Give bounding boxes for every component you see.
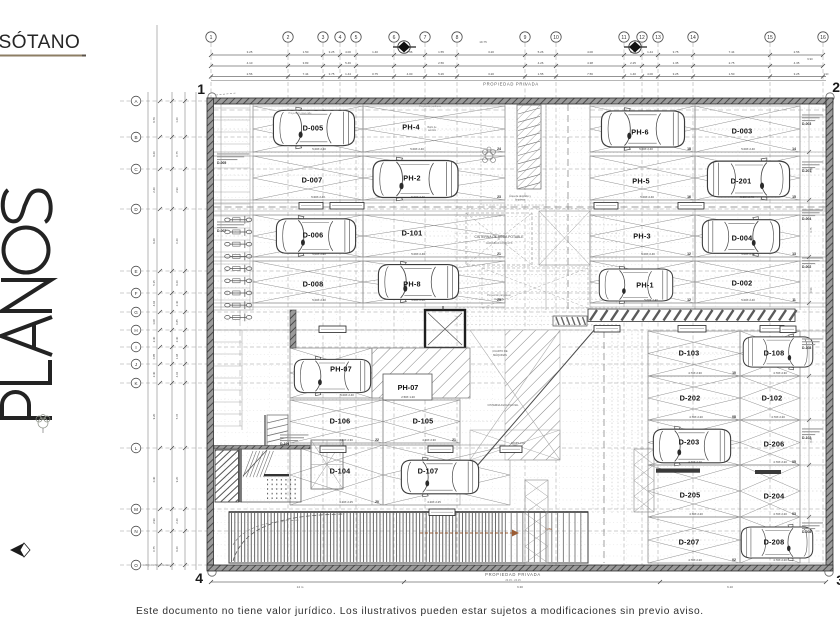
svg-text:PH-07: PH-07 xyxy=(330,364,352,373)
svg-text:5.00X 2.40: 5.00X 2.40 xyxy=(411,252,425,256)
svg-text:PH-4: PH-4 xyxy=(402,122,420,131)
svg-text:5.00X 2.40: 5.00X 2.40 xyxy=(312,252,326,256)
svg-text:4.02: 4.02 xyxy=(175,371,179,377)
svg-text:1: 1 xyxy=(197,81,205,97)
parking stall D-006 xyxy=(253,215,363,257)
svg-text:D-007: D-007 xyxy=(302,175,323,184)
lattice pier 1 xyxy=(525,480,548,563)
svg-text:D-203: D-203 xyxy=(679,437,700,446)
car in stall D-201 xyxy=(707,158,789,200)
svg-text:N: N xyxy=(134,529,137,534)
svg-text:9.20: 9.20 xyxy=(152,151,156,157)
svg-text:4.00: 4.00 xyxy=(345,50,351,54)
svg-text:D-002: D-002 xyxy=(802,265,811,269)
machine room / pluvial cistern block xyxy=(470,330,560,460)
margin note box D-102 xyxy=(802,428,823,440)
svg-text:D-208: D-208 xyxy=(802,530,811,534)
svg-text:4.70X 2.20: 4.70X 2.20 xyxy=(688,460,702,464)
svg-text:9.20: 9.20 xyxy=(175,280,179,286)
svg-text:D-106: D-106 xyxy=(330,416,351,425)
parking stall D-003 xyxy=(695,106,800,152)
svg-text:5.00X 2.40: 5.00X 2.40 xyxy=(340,393,354,397)
svg-text:02: 02 xyxy=(732,558,736,562)
ceiling ledge lines below top wall xyxy=(214,105,827,115)
section marker 1 top-left xyxy=(197,81,236,101)
lattice pier 2 xyxy=(634,449,654,512)
row grid lines xyxy=(120,101,826,565)
svg-text:D-103: D-103 xyxy=(679,348,700,357)
parking stall D-108 xyxy=(740,331,800,376)
parking stall PH-07 xyxy=(290,348,372,398)
svg-text:25: 25 xyxy=(497,298,501,302)
svg-text:PROPIEDAD PRIVADA: PROPIEDAD PRIVADA xyxy=(483,82,539,87)
central shaft X brace xyxy=(482,211,590,308)
svg-text:CISTERNA DE AGUA POTABLE: CISTERNA DE AGUA POTABLE xyxy=(474,235,524,239)
svg-text:2.96: 2.96 xyxy=(152,518,156,524)
svg-text:2.96: 2.96 xyxy=(175,187,179,193)
svg-text:3.20: 3.20 xyxy=(488,72,494,76)
svg-text:14: 14 xyxy=(792,147,796,151)
svg-text:7.44: 7.44 xyxy=(729,50,735,54)
svg-text:6.30: 6.30 xyxy=(810,437,813,442)
stall labels xyxy=(302,122,796,561)
svg-text:21: 21 xyxy=(497,252,501,256)
svg-text:5.00X 2.40: 5.00X 2.40 xyxy=(411,298,425,302)
svg-text:I: I xyxy=(135,345,136,350)
svg-text:5.15: 5.15 xyxy=(175,413,179,419)
parking stall D-007 xyxy=(253,156,363,200)
svg-text:4.00: 4.00 xyxy=(587,50,593,54)
car in stall PH-6 xyxy=(601,108,684,151)
svg-text:M: M xyxy=(134,507,138,512)
svg-text:D-202: D-202 xyxy=(680,393,701,402)
svg-text:5.46: 5.46 xyxy=(345,61,351,65)
svg-text:0.75: 0.75 xyxy=(175,151,179,157)
svg-text:18: 18 xyxy=(687,147,691,151)
svg-text:limpieza: limpieza xyxy=(515,198,525,202)
svg-text:0.75: 0.75 xyxy=(152,546,156,552)
svg-text:2: 2 xyxy=(287,35,290,41)
corridor dotted verticals bottom-right xyxy=(593,330,638,515)
svg-text:H: H xyxy=(134,328,137,333)
svg-text:D-003: D-003 xyxy=(802,122,811,126)
svg-text:2.40: 2.40 xyxy=(175,518,179,524)
car in stall D-006 xyxy=(276,216,355,257)
parking stall D-106 xyxy=(290,400,383,443)
svg-text:6.10: 6.10 xyxy=(727,585,733,589)
svg-text:5.00X 2.40: 5.00X 2.40 xyxy=(641,252,655,256)
svg-text:14 m: 14 m xyxy=(297,585,304,589)
svg-text:13: 13 xyxy=(655,35,661,41)
parking stall D-208 xyxy=(740,517,800,563)
svg-text:03: 03 xyxy=(792,512,796,516)
storage stall PH-07 (second) xyxy=(383,374,432,400)
svg-text:1.50: 1.50 xyxy=(303,50,309,54)
parking stall D-203 xyxy=(648,420,740,465)
stair handrail bar xyxy=(264,474,289,476)
svg-text:5.00X 2.40: 5.00X 2.40 xyxy=(741,298,755,302)
svg-text:3.25: 3.25 xyxy=(673,72,679,76)
car in stall D-005 xyxy=(273,107,354,149)
svg-text:D-104: D-104 xyxy=(330,466,352,475)
svg-text:D-205: D-205 xyxy=(680,490,701,499)
storage note box D-104 xyxy=(280,434,309,446)
svg-text:15: 15 xyxy=(792,195,796,199)
svg-text:MÁQUINAS: MÁQUINAS xyxy=(493,353,507,357)
car in stall D-004 xyxy=(702,217,779,257)
bottom outer dimension line xyxy=(209,572,828,589)
svg-text:9.20: 9.20 xyxy=(152,413,156,419)
svg-text:4.20X 2.25: 4.20X 2.25 xyxy=(427,500,441,504)
margin note box D-208 xyxy=(802,522,823,534)
title SOTANO xyxy=(0,31,86,57)
svg-text:5.15: 5.15 xyxy=(152,280,156,286)
svg-text:SUBE: SUBE xyxy=(545,527,552,531)
svg-text:E: E xyxy=(134,269,137,274)
svg-text:3.83: 3.83 xyxy=(303,61,309,65)
margin note box D-004 xyxy=(802,209,823,221)
svg-text:5.00X 2.40: 5.00X 2.40 xyxy=(741,147,755,151)
svg-text:0.75: 0.75 xyxy=(372,72,378,76)
svg-text:Proyección pérgola en: Proyección pérgola en xyxy=(487,294,511,297)
column grid lines xyxy=(211,43,823,570)
cistern (CISTERNA DE AGUA POTABLE) xyxy=(466,213,532,301)
parking stall D-002 xyxy=(695,261,800,303)
svg-text:D-102: D-102 xyxy=(762,393,783,402)
svg-text:D-101: D-101 xyxy=(402,228,423,237)
parking stall D-005 xyxy=(253,106,363,152)
svg-text:2: 2 xyxy=(832,79,840,95)
stair landing dot grid xyxy=(267,479,296,499)
svg-text:O: O xyxy=(134,563,138,568)
svg-text:G: G xyxy=(134,310,138,315)
svg-text:CAPACIDAD 10,000 LTS: CAPACIDAD 10,000 LTS xyxy=(486,242,513,245)
row grid bubbles A-O xyxy=(131,96,141,570)
svg-text:D-005: D-005 xyxy=(303,123,324,132)
svg-text:PH-8: PH-8 xyxy=(403,279,420,288)
svg-text:24: 24 xyxy=(497,147,501,151)
margin note box D-201 xyxy=(802,161,823,173)
parking stall PH-6 xyxy=(590,106,695,152)
svg-text:ARQ-01 Nivel Sótano: ARQ-01 Nivel Sótano xyxy=(143,563,172,567)
svg-text:08: 08 xyxy=(732,415,736,419)
svg-text:05: 05 xyxy=(792,460,796,464)
svg-text:servicio: servicio xyxy=(428,129,437,132)
interior corridor lines xyxy=(214,104,827,563)
column grid bubbles 1-16 xyxy=(206,32,828,42)
svg-text:22: 22 xyxy=(375,438,379,442)
svg-text:9.20: 9.20 xyxy=(175,546,179,552)
svg-text:7.44: 7.44 xyxy=(303,72,309,76)
svg-text:9.79: 9.79 xyxy=(152,117,156,123)
storage note box D-005 xyxy=(217,153,249,165)
svg-text:4.70X 2.20: 4.70X 2.20 xyxy=(689,512,703,516)
svg-text:3.75: 3.75 xyxy=(329,72,335,76)
svg-text:4.26: 4.26 xyxy=(538,61,544,65)
svg-text:4.70X 2.20: 4.70X 2.20 xyxy=(773,558,787,562)
svg-text:0.40: 0.40 xyxy=(175,238,179,244)
margin note box D-003 xyxy=(802,114,823,126)
wall bottom xyxy=(207,565,833,571)
service note top-centre xyxy=(428,126,532,202)
svg-text:10: 10 xyxy=(732,371,736,375)
svg-text:4.20X 2.30: 4.20X 2.30 xyxy=(422,438,436,442)
parking stall D-201 xyxy=(695,156,800,200)
storage hatch right of PH-07 xyxy=(372,348,470,398)
svg-text:0.90: 0.90 xyxy=(810,287,813,292)
parking stall PH-3 xyxy=(590,215,695,257)
svg-text:11: 11 xyxy=(621,35,626,41)
svg-text:D-002: D-002 xyxy=(732,278,753,287)
parking stall PH-2 xyxy=(363,156,505,200)
motorcycle parking rows xyxy=(225,216,252,321)
svg-text:0.75: 0.75 xyxy=(810,227,813,232)
parking stall PH-1 xyxy=(590,261,695,303)
svg-text:2.75: 2.75 xyxy=(729,61,735,65)
svg-text:4.70X 2.30: 4.70X 2.30 xyxy=(688,371,702,375)
svg-text:5.00X 2.40: 5.00X 2.40 xyxy=(312,298,326,302)
svg-text:Área de depósito y: Área de depósito y xyxy=(509,194,531,198)
svg-text:9.90: 9.90 xyxy=(807,57,813,61)
svg-text:19.75: 19.75 xyxy=(479,40,487,44)
stair flight diagonal treads xyxy=(243,450,273,477)
svg-text:12: 12 xyxy=(639,35,645,41)
svg-text:16: 16 xyxy=(687,195,691,199)
svg-text:D-008: D-008 xyxy=(303,279,324,288)
svg-text:4.20X 2.30: 4.20X 2.30 xyxy=(339,438,353,442)
parking stall D-008 xyxy=(253,261,363,303)
svg-text:D-108: D-108 xyxy=(764,348,785,357)
svg-text:2.50X 1.20: 2.50X 1.20 xyxy=(401,395,415,399)
big rotated word PLANOS xyxy=(0,190,52,418)
wheel stop bars bottom-right xyxy=(656,469,781,475)
svg-text:D-201: D-201 xyxy=(731,176,752,185)
svg-text:8: 8 xyxy=(456,35,459,41)
north arrow 2 xyxy=(624,41,647,53)
svg-text:3.25: 3.25 xyxy=(329,50,335,54)
svg-text:3.75: 3.75 xyxy=(673,50,679,54)
svg-text:6.30: 6.30 xyxy=(517,585,523,589)
north arrow 1 xyxy=(393,41,416,53)
svg-text:4.70X 2.20: 4.70X 2.20 xyxy=(689,415,703,419)
svg-text:5.00X 2.40: 5.00X 2.40 xyxy=(644,298,658,302)
svg-text:1.50: 1.50 xyxy=(729,72,735,76)
wall right xyxy=(826,98,833,570)
svg-text:4.38: 4.38 xyxy=(587,61,593,65)
svg-text:PH-5: PH-5 xyxy=(632,176,649,185)
parking stall D-107 xyxy=(383,445,510,505)
svg-text:9.20: 9.20 xyxy=(175,476,179,482)
ramp edge long diagonal xyxy=(458,329,595,488)
svg-text:1.20: 1.20 xyxy=(175,117,179,123)
svg-text:4.70X 2.30: 4.70X 2.30 xyxy=(773,371,787,375)
section marker 3 bottom-right xyxy=(825,568,840,588)
svg-text:3.20: 3.20 xyxy=(488,50,494,54)
svg-text:D-207: D-207 xyxy=(679,537,700,546)
svg-text:1.40: 1.40 xyxy=(372,50,378,54)
svg-text:D-208: D-208 xyxy=(764,537,785,546)
svg-text:D-003: D-003 xyxy=(732,126,753,135)
svg-text:3: 3 xyxy=(322,35,325,41)
svg-text:D-005: D-005 xyxy=(217,161,226,165)
svg-text:1.44: 1.44 xyxy=(345,72,351,76)
svg-text:5.00X 2.40: 5.00X 2.40 xyxy=(311,195,325,199)
svg-text:0.85: 0.85 xyxy=(152,353,156,359)
car in stall PH-07 xyxy=(294,356,370,395)
svg-text:1.08: 1.08 xyxy=(152,319,156,325)
car in stall D-208 xyxy=(741,524,812,561)
svg-text:B: B xyxy=(134,135,137,140)
svg-text:F: F xyxy=(135,291,138,296)
svg-text:5: 5 xyxy=(355,35,358,41)
svg-text:D-006: D-006 xyxy=(303,230,324,239)
svg-text:D-007: D-007 xyxy=(217,229,226,233)
svg-text:CISTERNA AGUA PLUVIAL: CISTERNA AGUA PLUVIAL xyxy=(488,404,520,407)
parking stall D-101 xyxy=(363,215,505,257)
small compass arrow bottom-left margin xyxy=(10,543,30,557)
parking stall D-102 xyxy=(740,376,800,420)
ramp direction arrow (sienna) xyxy=(420,527,552,537)
hatched pier block left of stairs xyxy=(210,416,245,540)
svg-text:PH-1: PH-1 xyxy=(636,280,653,289)
section marker 4 bottom-left xyxy=(195,568,216,586)
svg-text:3: 3 xyxy=(836,572,840,588)
svg-text:2.56: 2.56 xyxy=(794,50,800,54)
section marker 2 top-right xyxy=(826,79,840,101)
svg-text:6.30: 6.30 xyxy=(810,167,813,172)
svg-text:4: 4 xyxy=(339,35,342,41)
svg-text:5.00X 2.40: 5.00X 2.40 xyxy=(740,195,754,199)
svg-text:PH-3: PH-3 xyxy=(633,231,650,240)
svg-text:SÓTANO: SÓTANO xyxy=(0,31,80,53)
svg-text:PROPIEDAD PRIVADA: PROPIEDAD PRIVADA xyxy=(485,572,541,577)
svg-text:D-104: D-104 xyxy=(280,442,289,446)
svg-text:4.70X 2.20: 4.70X 2.20 xyxy=(771,415,785,419)
svg-text:4.70X 2.20: 4.70X 2.20 xyxy=(773,460,787,464)
svg-text:4: 4 xyxy=(195,570,203,586)
svg-text:5.00X 2.40: 5.00X 2.40 xyxy=(640,195,654,199)
svg-text:12: 12 xyxy=(687,298,691,302)
car in stall PH-2 xyxy=(373,157,458,201)
svg-text:4.00: 4.00 xyxy=(647,72,653,76)
svg-text:1.35: 1.35 xyxy=(673,61,679,65)
svg-text:2.40: 2.40 xyxy=(175,300,179,306)
elevator core xyxy=(425,306,465,348)
svg-text:5.00X 2.40: 5.00X 2.40 xyxy=(639,147,653,151)
parking stall PH-8 xyxy=(363,261,505,303)
svg-text:20: 20 xyxy=(375,500,379,504)
svg-text:0.85: 0.85 xyxy=(175,319,179,325)
svg-text:5.00X 2.40: 5.00X 2.40 xyxy=(741,252,755,256)
svg-text:10: 10 xyxy=(553,35,559,41)
margin note box D-108 xyxy=(802,338,823,350)
parking stall D-105 xyxy=(383,400,460,443)
svg-text:5.00X 2.40: 5.00X 2.40 xyxy=(312,147,326,151)
parking stall D-202 xyxy=(648,376,740,420)
margin note box D-002 xyxy=(802,257,823,269)
parking stall D-103 xyxy=(648,331,740,376)
svg-text:0.90: 0.90 xyxy=(824,73,829,76)
svg-text:D-206: D-206 xyxy=(764,439,785,448)
svg-text:2.25: 2.25 xyxy=(630,61,636,65)
svg-text:11: 11 xyxy=(792,298,796,302)
svg-text:4.35: 4.35 xyxy=(794,61,800,65)
svg-text:4.70X 2.20: 4.70X 2.20 xyxy=(688,558,702,562)
wall band above pier block xyxy=(214,310,310,502)
svg-text:4.20X 2.25: 4.20X 2.25 xyxy=(339,500,353,504)
svg-text:3.25: 3.25 xyxy=(247,50,253,54)
svg-text:RAMPA 15%: RAMPA 15% xyxy=(511,442,526,445)
svg-text:9.20: 9.20 xyxy=(152,238,156,244)
svg-text:15: 15 xyxy=(767,35,773,41)
stair core outline xyxy=(241,449,301,502)
svg-text:2.40: 2.40 xyxy=(175,336,179,342)
svg-text:9: 9 xyxy=(524,35,527,41)
svg-text:J: J xyxy=(135,362,137,367)
svg-text:Proyección nivel calle: Proyección nivel calle xyxy=(289,112,313,115)
svg-text:D-204: D-204 xyxy=(764,491,786,500)
svg-text:PH-2: PH-2 xyxy=(403,173,420,182)
svg-text:D-004: D-004 xyxy=(732,233,754,242)
svg-text:D-108: D-108 xyxy=(802,346,811,350)
storage note box D-007 xyxy=(217,221,249,233)
svg-text:14: 14 xyxy=(690,35,696,41)
svg-text:2.40: 2.40 xyxy=(152,187,156,193)
tree marker left margin xyxy=(36,415,50,434)
svg-text:23: 23 xyxy=(497,195,501,199)
right margin inner dimension line xyxy=(807,104,813,563)
ramp with striped treads xyxy=(229,512,588,563)
svg-text:4.02: 4.02 xyxy=(152,300,156,306)
svg-text:D-107: D-107 xyxy=(418,466,439,475)
svg-text:D-105: D-105 xyxy=(413,416,434,425)
car in stall D-203 xyxy=(653,426,730,466)
car in stall D-107 xyxy=(401,457,478,497)
svg-text:5.00X 2.40: 5.00X 2.40 xyxy=(411,195,425,199)
svg-text:Proyección jardinera: Proyección jardinera xyxy=(419,105,441,108)
parking stall D-205 xyxy=(648,465,740,517)
car in stall D-108 xyxy=(743,334,813,370)
parking stall D-207 xyxy=(648,517,740,563)
svg-text:2.40: 2.40 xyxy=(152,336,156,342)
parking stall D-104 xyxy=(290,445,383,505)
parking stall PH-5 xyxy=(590,156,695,200)
skylight/glass floor rect xyxy=(311,440,343,489)
upper stair flight hatch xyxy=(265,415,288,449)
svg-text:Este documento no tiene valor: Este documento no tiene valor jurídico. … xyxy=(136,606,704,617)
car in stall PH-1 xyxy=(599,266,672,304)
svg-text:16: 16 xyxy=(820,35,826,41)
svg-text:5.00X 2.40: 5.00X 2.40 xyxy=(410,147,424,151)
svg-text:4.70X 2.20: 4.70X 2.20 xyxy=(773,512,787,516)
svg-text:PH-07: PH-07 xyxy=(398,383,419,392)
wall top xyxy=(207,98,833,104)
svg-text:0.40: 0.40 xyxy=(152,476,156,482)
small crossing left of band xyxy=(553,316,587,326)
car in stall PH-8 xyxy=(378,261,458,302)
svg-text:7.56: 7.56 xyxy=(587,72,593,76)
svg-text:7: 7 xyxy=(424,35,427,41)
parking stall PH-4 xyxy=(363,106,505,152)
svg-text:21: 21 xyxy=(452,438,456,442)
svg-text:D-004: D-004 xyxy=(802,217,811,221)
parking stall D-004 xyxy=(695,215,800,257)
signage rects corridor xyxy=(299,203,796,516)
svg-text:1.44: 1.44 xyxy=(647,50,653,54)
svg-text:3.25: 3.25 xyxy=(794,72,800,76)
parking stall D-204 xyxy=(740,465,800,517)
wall left xyxy=(207,98,214,570)
